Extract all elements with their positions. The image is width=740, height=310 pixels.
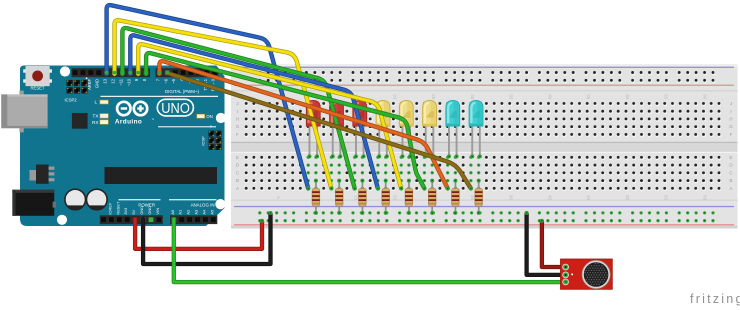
resistor R2 — [335, 179, 343, 215]
ON power LED — [197, 114, 213, 119]
svg-text:~5: ~5 — [171, 78, 176, 83]
reset button SW1 — [23, 66, 52, 90]
svg-text:ICSP2: ICSP2 — [65, 98, 78, 103]
resistor R8 — [475, 179, 483, 215]
svg-text:D: D — [729, 163, 732, 168]
svg-text:E: E — [236, 155, 239, 160]
svg-text:60: 60 — [703, 195, 708, 201]
svg-text:RESET: RESET — [115, 201, 120, 215]
LED2 red LED — [330, 101, 344, 159]
svg-text:45: 45 — [586, 195, 591, 201]
svg-text:H: H — [236, 117, 239, 122]
svg-text:D: D — [236, 163, 239, 168]
svg-text:40: 40 — [548, 94, 553, 100]
svg-text:Arduino: Arduino — [115, 118, 142, 125]
resistor R7 — [452, 179, 460, 215]
svg-text:5V: 5V — [131, 209, 136, 214]
svg-text:35: 35 — [509, 94, 514, 100]
LED6 yellow LED — [423, 101, 437, 159]
svg-text:A: A — [236, 186, 239, 191]
L / TX / RX indicator LEDs — [92, 100, 108, 125]
Arduino mounting holes — [57, 66, 226, 225]
svg-text:ON: ON — [206, 114, 213, 119]
Arduino digital header J3 — [72, 68, 219, 77]
svg-text:GND: GND — [95, 79, 100, 88]
wire D13 (→ breadboard) — [105, 5, 311, 190]
svg-text:UNO: UNO — [161, 100, 190, 117]
svg-text:45: 45 — [586, 94, 591, 100]
svg-text:DIGITAL (PWM~): DIGITAL (PWM~) — [165, 89, 200, 94]
USB connector J1 — [1, 91, 47, 133]
svg-text:60: 60 — [703, 94, 708, 100]
svg-text:ANALOG IN: ANALOG IN — [191, 202, 215, 207]
breadboard hole grid — [245, 102, 722, 191]
ATmega328 IC U2 — [105, 167, 218, 184]
svg-text:15: 15 — [354, 195, 359, 201]
svg-text:L: L — [94, 100, 97, 105]
svg-text:~11: ~11 — [118, 78, 123, 85]
svg-text:A4: A4 — [201, 209, 206, 215]
wire D9 (→ breadboard) — [136, 44, 403, 190]
LED1 red LED — [306, 101, 320, 159]
fritzing logo — [690, 292, 740, 306]
Arduino logo — [115, 99, 216, 127]
DC power jack J2 — [12, 190, 56, 216]
svg-text:POWER: POWER — [138, 202, 155, 207]
microphone module MIC1 — [561, 259, 613, 289]
svg-text:A: A — [730, 186, 733, 191]
wire D11 (→ breadboard) — [121, 28, 357, 190]
wire A0 to mic AUD (green) — [174, 219, 568, 285]
electrolytic capacitors C1 C2 — [65, 189, 107, 210]
svg-text:A1: A1 — [178, 210, 183, 215]
resistor R3 — [359, 179, 367, 215]
silkscreen digital pin labels — [87, 78, 218, 97]
svg-text:50: 50 — [625, 195, 630, 201]
svg-text:I: I — [730, 109, 731, 114]
resistor R4 — [382, 179, 390, 215]
svg-text:30: 30 — [470, 94, 475, 100]
svg-text:IOREF: IOREF — [107, 202, 112, 215]
wire D8 (→ breadboard) — [144, 53, 426, 190]
svg-text:~6: ~6 — [163, 78, 168, 83]
wire GND to bottom rail (black) — [143, 211, 272, 264]
svg-text:fritzing: fritzing — [690, 292, 740, 306]
svg-text:AREF: AREF — [87, 79, 92, 90]
svg-text:B: B — [236, 178, 239, 183]
LED8 cyan LED — [469, 101, 483, 159]
svg-text:TX: TX — [93, 114, 99, 119]
svg-text:A0: A0 — [170, 209, 175, 215]
svg-text:C: C — [729, 170, 732, 175]
LED3 red LED — [353, 101, 367, 159]
ICSP header — [201, 125, 222, 151]
svg-text:G: G — [236, 124, 240, 129]
svg-text:ICSP: ICSP — [201, 136, 206, 146]
voltage regulator VR1 — [30, 165, 55, 184]
svg-text:E: E — [730, 155, 733, 160]
breadboard bottom power rail — [234, 206, 734, 226]
wire rail 5V to mic VCC (dark red) — [540, 219, 564, 267]
svg-text:I: I — [237, 109, 238, 114]
svg-text:30: 30 — [470, 195, 475, 201]
svg-text:55: 55 — [664, 94, 669, 100]
resistor R5 — [405, 179, 413, 215]
wire rail GND to mic GND (black) — [525, 211, 564, 275]
Arduino power / analog headers J4 J5 — [100, 199, 218, 224]
svg-text:1: 1 — [210, 125, 212, 129]
svg-text:B: B — [730, 178, 733, 183]
svg-text:F: F — [730, 132, 733, 137]
svg-text:25: 25 — [431, 94, 436, 100]
svg-text:A3: A3 — [194, 210, 199, 215]
svg-text:12: 12 — [111, 78, 116, 83]
breadboard — [231, 64, 738, 229]
svg-text:5: 5 — [276, 196, 281, 199]
wire 5V to bottom rail (red) — [135, 219, 264, 249]
LED7 cyan LED — [446, 101, 460, 159]
svg-text:RX: RX — [92, 120, 98, 125]
svg-text:A5: A5 — [209, 210, 214, 215]
LED5 yellow LED — [399, 101, 413, 159]
svg-text:55: 55 — [664, 195, 669, 201]
svg-text:G: G — [729, 124, 733, 129]
svg-text:J: J — [730, 101, 732, 106]
svg-text:~10: ~10 — [126, 78, 131, 86]
svg-text:40: 40 — [548, 195, 553, 201]
breadboard top power rail — [234, 67, 734, 86]
svg-text:50: 50 — [625, 94, 630, 100]
svg-text:3V3: 3V3 — [123, 208, 128, 215]
USB interface chip U3 — [72, 113, 88, 129]
svg-text:C: C — [236, 170, 239, 175]
breadboard row/column labels — [236, 94, 734, 200]
svg-text:20: 20 — [392, 94, 397, 100]
svg-text:A2: A2 — [186, 210, 191, 215]
wire D12 (→ breadboard) — [113, 20, 334, 190]
resistor R1 — [312, 179, 320, 215]
svg-text:20: 20 — [392, 195, 397, 201]
svg-text:13: 13 — [103, 78, 108, 83]
svg-text:F: F — [236, 132, 239, 137]
svg-text:H: H — [729, 117, 732, 122]
svg-text:RESET: RESET — [31, 85, 45, 90]
ICSP2 header — [65, 77, 88, 102]
svg-text:VIN: VIN — [155, 208, 160, 215]
svg-text:™: ™ — [151, 118, 154, 122]
wire D6 (brown) — [165, 71, 473, 191]
svg-text:J: J — [236, 101, 238, 106]
wire D7 (→ breadboard) — [158, 61, 450, 190]
svg-text:35: 35 — [509, 195, 514, 201]
Arduino UNO U1 — [20, 66, 225, 227]
wire D10 (→ breadboard) — [128, 35, 379, 190]
LED4 yellow LED — [376, 101, 390, 159]
resistor R6 — [428, 179, 436, 215]
